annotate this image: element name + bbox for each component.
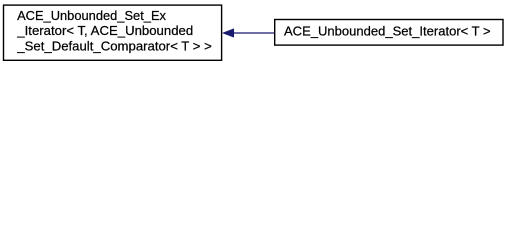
node box ACE_Unbounded_Set_Iterator< T > xyxy=(275,20,503,46)
inheritance edge arrowhead xyxy=(223,29,234,38)
node box ACE_Unbounded_Set_Ex_Iterator (template instance) xyxy=(4,5,222,60)
inheritance edge wire xyxy=(234,32,275,34)
svg-text:ACE_Unbounded_Set_Ex: ACE_Unbounded_Set_Ex xyxy=(17,8,166,23)
svg-text:_Set_Default_Comparator< T > >: _Set_Default_Comparator< T > > xyxy=(16,39,212,54)
svg-text:_Iterator< T, ACE_Unbounded: _Iterator< T, ACE_Unbounded xyxy=(16,23,193,38)
svg-text:ACE_Unbounded_Set_Iterator< T: ACE_Unbounded_Set_Iterator< T > xyxy=(284,23,491,38)
